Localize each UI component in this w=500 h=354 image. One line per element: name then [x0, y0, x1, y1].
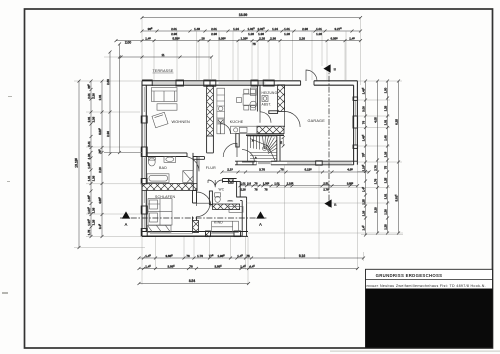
svg-text:9.16: 9.16: [299, 254, 305, 258]
svg-text:A: A: [124, 222, 128, 227]
wc sink: [227, 199, 233, 202]
terrace west edge / dim L5: [118, 43, 121, 155]
svg-text:2.01: 2.01: [98, 94, 102, 100]
svg-text:1.75: 1.75: [87, 229, 91, 235]
svg-text:1.085: 1.085: [263, 182, 270, 186]
svg-text:75: 75: [252, 42, 256, 46]
wc north wall: [223, 179, 237, 182]
coffee table: [157, 104, 177, 110]
garage east wall: [354, 81, 358, 165]
svg-text:1.25: 1.25: [383, 177, 387, 183]
svg-text:1.01: 1.01: [383, 193, 387, 199]
svg-text:1.26: 1.26: [284, 32, 290, 36]
kitchen island west part: [231, 126, 257, 133]
arrow marks: [252, 139, 258, 158]
svg-text:1.26: 1.26: [316, 32, 322, 36]
svg-text:GRUNDRISS ERDGESCHOSS: GRUNDRISS ERDGESCHOSS: [376, 273, 443, 278]
svg-text:1.485: 1.485: [87, 161, 91, 168]
svg-text:2.15: 2.15: [227, 168, 233, 172]
svg-text:2.51: 2.51: [323, 182, 329, 186]
dim L4 terrace: [106, 51, 112, 156]
west wall lines: [142, 81, 146, 237]
heizung west wall: [257, 86, 260, 112]
svg-text:1.015: 1.015: [87, 206, 91, 213]
svg-text:2.36: 2.36: [302, 27, 308, 31]
dim R3 chain: [383, 80, 389, 235]
svg-text:FLUR: FLUR: [206, 166, 216, 170]
svg-text:GARAGE: GARAGE: [308, 119, 326, 123]
svg-text:KIND: KIND: [214, 221, 223, 225]
heizung south wall: [269, 111, 278, 114]
svg-text:1.45: 1.45: [361, 225, 365, 231]
wc toilet: [215, 193, 221, 197]
bad sink: [164, 156, 176, 162]
wc west wall: [209, 191, 212, 205]
svg-text:76: 76: [265, 188, 268, 192]
dim T2 chain: [141, 27, 363, 36]
svg-text:76: 76: [189, 264, 193, 268]
svg-text:2.88: 2.88: [106, 79, 110, 85]
wc east wall: [237, 182, 241, 198]
svg-text:1.01: 1.01: [274, 182, 280, 186]
title block frame: [366, 269, 493, 347]
bad toilet: [148, 158, 155, 166]
svg-text:865: 865: [87, 84, 91, 89]
svg-text:1.36: 1.36: [258, 32, 264, 36]
svg-text:4.885: 4.885: [98, 196, 102, 203]
svg-text:6.135: 6.135: [304, 168, 312, 172]
svg-text:5.535: 5.535: [98, 127, 102, 134]
svg-text:1.45: 1.45: [145, 254, 151, 258]
schlafen door: [197, 203, 211, 217]
svg-text:1.24: 1.24: [272, 27, 278, 31]
svg-text:76: 76: [255, 182, 258, 186]
extension lines top: [142, 18, 361, 85]
svg-text:965: 965: [148, 27, 153, 31]
lower treads: [250, 153, 277, 159]
svg-text:13.185: 13.185: [75, 158, 79, 168]
dim B2 chain: [138, 264, 360, 270]
svg-text:WOHNEN: WOHNEN: [172, 120, 191, 124]
heizung boiler: [262, 96, 268, 102]
kitchen counter west: [217, 88, 225, 134]
stair east wall: [277, 136, 280, 161]
svg-text:4.05: 4.05: [373, 117, 377, 123]
dim L1 13.18: [75, 80, 81, 250]
kind door: [197, 192, 212, 207]
svg-text:26: 26: [201, 37, 205, 41]
extension lines left: [74, 57, 145, 248]
svg-text:1.16: 1.16: [383, 151, 387, 157]
south wall mid+garage band: [235, 161, 357, 165]
LABELS: [153, 69, 326, 225]
section marker A left: [122, 211, 130, 218]
svg-text:75: 75: [246, 254, 250, 258]
svg-text:1.76: 1.76: [373, 178, 377, 184]
hall west wall (flur-kueche): [236, 134, 239, 147]
svg-text:1.45: 1.45: [145, 264, 151, 268]
svg-text:2.41: 2.41: [87, 141, 91, 147]
section marker B top: [323, 64, 330, 72]
svg-text:1.465: 1.465: [361, 134, 365, 141]
stair door: [242, 150, 254, 162]
svg-text:2.01: 2.01: [87, 93, 91, 99]
svg-text:SCHLAFEN: SCHLAFEN: [155, 195, 176, 199]
armchair tilted: [152, 112, 168, 127]
north wall window center lines: [152, 82, 265, 84]
svg-text:1.01: 1.01: [87, 175, 91, 181]
svg-text:B: B: [334, 68, 337, 72]
dining table: [243, 94, 256, 105]
svg-text:755: 755: [361, 152, 365, 157]
svg-text:1.45: 1.45: [361, 186, 365, 192]
svg-text:3.6: 3.6: [247, 182, 251, 186]
dim T1 18.99: [141, 13, 363, 19]
svg-text:75: 75: [383, 166, 387, 170]
garage-abst door: [285, 112, 301, 128]
svg-text:1.26: 1.26: [248, 32, 254, 36]
dim B1 chain: [138, 254, 366, 260]
svg-text:B: B: [334, 203, 337, 207]
dim R4: [394, 80, 400, 235]
kind east wall: [242, 201, 246, 237]
svg-text:5.535: 5.535: [172, 37, 180, 41]
svg-text:1.465: 1.465: [361, 87, 365, 94]
FURNITURE: [147, 88, 268, 233]
svg-text:1.01: 1.01: [284, 27, 290, 31]
wc/kind step wall: [237, 197, 247, 201]
svg-text:3.06: 3.06: [361, 106, 365, 112]
dim I1 interior: [221, 168, 371, 174]
svg-text:3.45: 3.45: [98, 223, 102, 229]
bathtub: [147, 174, 169, 183]
heizung door: [260, 112, 271, 123]
walk line: [250, 139, 276, 162]
svg-text:KÜCHE: KÜCHE: [230, 120, 244, 124]
sofa wohnen: [152, 88, 178, 102]
north wall piers (outlined): [142, 80, 314, 86]
dim R1 chain: [361, 80, 367, 237]
kind bed: [212, 221, 239, 232]
svg-text:1.28: 1.28: [383, 224, 387, 230]
svg-text:3.385: 3.385: [218, 37, 226, 41]
svg-text:1.26: 1.26: [91, 219, 95, 225]
svg-text:TERRASSE: TERRASSE: [153, 69, 174, 73]
scan specks left margin: [2, 96, 12, 294]
west wall piers (outlined): [141, 116, 147, 236]
svg-text:3.19: 3.19: [373, 207, 377, 213]
svg-text:HEIZUNG: HEIZUNG: [262, 91, 278, 95]
svg-text:1.25: 1.25: [361, 199, 365, 205]
svg-text:PROJEKT:: PROJEKT:: [367, 285, 379, 288]
svg-text:3.685: 3.685: [347, 182, 354, 186]
svg-text:1.01: 1.01: [240, 182, 246, 186]
svg-text:1.16: 1.16: [361, 210, 365, 216]
WALLS: [141, 80, 357, 237]
section marker A right: [256, 211, 264, 218]
svg-text:2.26: 2.26: [240, 188, 246, 192]
redacted black block: [366, 289, 493, 348]
svg-text:76: 76: [186, 254, 190, 258]
svg-text:2.26: 2.26: [299, 37, 305, 41]
svg-text:3.275: 3.275: [334, 27, 342, 31]
west wall window center lines: [143, 87, 145, 229]
kitchen tall units east: [250, 88, 256, 95]
svg-text:2.26: 2.26: [98, 167, 102, 173]
shower: [183, 171, 193, 183]
section line B-B: [328, 65, 330, 207]
TITLEBLOCK: [366, 269, 493, 347]
schlafen east wall: [193, 190, 197, 220]
svg-text:2.36: 2.36: [211, 32, 217, 36]
svg-text:1.485: 1.485: [87, 194, 91, 201]
svg-text:1.01: 1.01: [316, 27, 322, 31]
svg-text:4.45: 4.45: [249, 264, 255, 268]
svg-text:A: A: [259, 222, 263, 227]
DOORS: [184, 70, 317, 217]
svg-text:4.65: 4.65: [347, 168, 353, 172]
bad door: [184, 156, 199, 171]
wc/kind hatched wall: [213, 204, 240, 210]
wohnen/bad wall: [146, 153, 204, 159]
svg-text:775: 775: [209, 254, 214, 258]
svg-text:3.885: 3.885: [214, 264, 222, 268]
stair outline: [248, 136, 277, 162]
svg-text:1.00: 1.00: [383, 87, 387, 93]
svg-text:1.45: 1.45: [237, 254, 243, 258]
svg-text:2.36: 2.36: [91, 93, 95, 99]
svg-text:1.28: 1.28: [383, 105, 387, 111]
svg-text:1.45: 1.45: [145, 37, 151, 41]
svg-text:6.385: 6.385: [330, 37, 338, 41]
svg-text:2.36: 2.36: [91, 116, 95, 122]
svg-text:2.015: 2.015: [257, 27, 265, 31]
dim T4 terrace: [120, 53, 214, 59]
stair north wall line: [246, 135, 284, 137]
terrace south edge: [104, 152, 142, 154]
bad east wall: [193, 157, 197, 191]
wohnen/kueche wall lower plain part: [207, 136, 214, 153]
svg-text:8.54: 8.54: [189, 279, 195, 283]
svg-text:5.915: 5.915: [394, 194, 398, 202]
svg-text:2.36: 2.36: [171, 32, 177, 36]
dim L2 chain: [87, 80, 96, 239]
svg-text:1.48: 1.48: [194, 27, 200, 31]
svg-text:1.01: 1.01: [383, 119, 387, 125]
kitchen island hatched part: [257, 126, 284, 133]
SECTIONS: [120, 64, 337, 227]
DIMS: [74, 13, 403, 285]
section marker B bottom: [324, 199, 331, 207]
bad/schlafen hatched wall: [142, 184, 197, 191]
winder treads: [263, 136, 277, 154]
garage west hatched wall: [278, 85, 285, 112]
upper treads: [251, 136, 260, 150]
dim 75 stair: [279, 136, 285, 148]
svg-text:BAD: BAD: [159, 166, 167, 170]
svg-text:1.24: 1.24: [233, 27, 239, 31]
svg-text:1.315: 1.315: [87, 218, 91, 225]
kueche door (flur): [223, 143, 237, 157]
svg-text:1.26: 1.26: [383, 209, 387, 215]
svg-text:755: 755: [98, 149, 102, 154]
svg-text:2.76: 2.76: [323, 188, 329, 192]
svg-text:2.01: 2.01: [87, 116, 91, 122]
STAIRS: [248, 136, 277, 162]
svg-text:ABST.: ABST.: [262, 102, 272, 106]
svg-text:2.01: 2.01: [171, 27, 177, 31]
svg-text:1.26: 1.26: [87, 153, 91, 159]
svg-text:1.265: 1.265: [240, 37, 248, 41]
wc door (double swing): [208, 180, 222, 187]
svg-text:1.015: 1.015: [247, 27, 255, 31]
kueche door (island gap): [220, 124, 230, 134]
section line A-A: [120, 217, 268, 219]
svg-text:2.76: 2.76: [373, 165, 377, 171]
svg-text:1.76: 1.76: [197, 254, 203, 258]
extension lines bottom: [142, 165, 364, 285]
svg-text:1.45: 1.45: [349, 37, 355, 41]
svg-text:2.26: 2.26: [259, 37, 265, 41]
svg-text:1.165: 1.165: [361, 164, 365, 171]
svg-text:3.885: 3.885: [165, 254, 173, 258]
svg-text:18.99: 18.99: [239, 13, 248, 17]
svg-text:Neubau Zweifamilienwohnhaus Fl: Neubau Zweifamilienwohnhaus Flst: TD 489…: [380, 284, 486, 288]
dim B3 8.54: [138, 279, 251, 285]
dim R2 chain: [373, 80, 379, 235]
svg-text:1.985: 1.985: [217, 254, 225, 258]
svg-text:2.00: 2.00: [125, 41, 131, 45]
svg-text:2.01: 2.01: [211, 27, 217, 31]
svg-text:76: 76: [280, 168, 284, 172]
entrance door: [306, 70, 317, 81]
wohnen/kueche hatched wall: [207, 86, 214, 137]
south wall (west wing): [142, 232, 248, 237]
wardrobe schlafen: [148, 225, 172, 232]
dim I2 interior: [239, 182, 360, 192]
svg-text:6.25: 6.25: [394, 119, 398, 125]
kind desk: [229, 207, 243, 213]
HATCH: [142, 85, 285, 233]
svg-text:1.36: 1.36: [91, 175, 95, 181]
svg-text:2.36: 2.36: [270, 37, 276, 41]
svg-text:1.36: 1.36: [91, 207, 95, 213]
svg-text:11: 11: [161, 53, 164, 57]
dim T3 chain: [115, 37, 363, 47]
svg-text:1.48: 1.48: [383, 135, 387, 141]
extension lines right: [247, 81, 404, 235]
svg-text:2.36: 2.36: [106, 131, 110, 137]
north wall outer+inner lines: [142, 81, 357, 85]
svg-text:76: 76: [255, 188, 258, 192]
svg-text:WC: WC: [219, 188, 225, 192]
dim L3 chain: [98, 80, 104, 239]
svg-text:3.76: 3.76: [259, 168, 265, 172]
svg-text:75: 75: [279, 141, 283, 145]
svg-text:76: 76: [361, 121, 365, 125]
schlafen/kind hatched block: [193, 221, 199, 233]
svg-text:3.885: 3.885: [167, 264, 175, 268]
bed schlafen: [148, 199, 172, 225]
